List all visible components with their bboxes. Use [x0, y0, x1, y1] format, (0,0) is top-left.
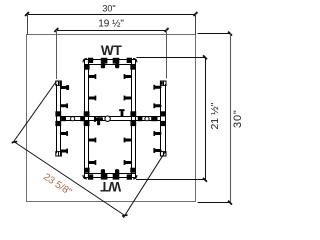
weld cap below middle bar at right element	[160, 121, 166, 126]
corner top-right	[133, 59, 137, 63]
tick 30in top right	[193, 11, 198, 16]
weld cap left bar bottom end	[85, 168, 90, 173]
stud on left WT y87	[60, 86, 67, 89]
weld cap top bar right end	[127, 58, 132, 63]
tick 21.5in bottom	[202, 177, 207, 182]
stud on left WT y105	[60, 104, 67, 107]
stud on left flange y98	[88, 97, 95, 100]
extension line diagonal lower (from right WT bottom corner)	[123, 152, 165, 218]
right WT top end tab	[160, 81, 166, 85]
weld cap top bar left end	[88, 58, 93, 63]
corner bottom-left	[83, 175, 87, 179]
tick 23-5/8 lower-right	[122, 214, 128, 217]
WT frame middle flanges	[61, 116, 161, 118]
stud head circle center	[105, 116, 110, 121]
stud head circle right span	[145, 117, 149, 121]
left WT top end tab	[56, 81, 62, 85]
stud on left flange y140	[88, 139, 95, 142]
weld cap right bar bottom end	[130, 168, 135, 173]
weld cap above middle bar at right element	[160, 111, 166, 116]
right WT web	[160, 81, 162, 156]
stud block on bottom flange left	[101, 174, 108, 180]
svg-text:WT: WT	[100, 179, 122, 194]
stud on left flange y76	[88, 75, 95, 78]
WT frame top flange	[84, 59, 135, 61]
svg-text:23 5/8": 23 5/8"	[41, 172, 74, 199]
extension line left plate edge	[27, 14, 29, 35]
stud on left WT y133	[60, 132, 67, 135]
stud inside right flange y162	[125, 161, 132, 164]
stud on right WT y87	[154, 86, 161, 89]
weld cap below middle bar at left bar	[84, 121, 90, 126]
right WT bottom end tab	[160, 152, 166, 156]
extension line right plate edge	[195, 14, 197, 35]
extension line right WT flange	[166, 30, 168, 78]
stud block on top flange left	[101, 58, 108, 64]
weld cap below middle bar at left element	[55, 121, 61, 126]
svg-text:19 ½": 19 ½"	[98, 19, 124, 30]
tick 19.5in right	[164, 27, 169, 32]
stud on left flange y162	[88, 161, 95, 164]
extension line left WT flange	[56, 30, 58, 79]
corner bottom-right	[133, 175, 137, 179]
svg-text:WT: WT	[101, 43, 123, 58]
stud block on top flange right	[113, 58, 120, 64]
svg-text:30": 30"	[232, 109, 244, 128]
weld cap middle bar seg3	[138, 116, 143, 121]
leader top 21.5in	[137, 57, 206, 59]
tick 30in top left	[24, 11, 29, 16]
stud inside right flange y98	[125, 97, 132, 100]
stud standing on middle bar	[119, 109, 124, 111]
dimension line 19.5in	[56, 30, 166, 32]
stud block on bottom flange right	[113, 174, 120, 180]
weld cap middle bar seg2	[80, 116, 85, 121]
WT frame left flange	[84, 60, 86, 178]
weld cap bottom bar right end	[127, 174, 132, 179]
stud on right WT y133	[154, 132, 161, 135]
stud inside right flange y76	[125, 75, 132, 78]
stud inside right flange y140	[125, 139, 132, 142]
dimension line 30in right vertical	[230, 34, 232, 203]
dimension line 23-5/8 diagonal	[15, 142, 125, 216]
tick 23-5/8 upper-left	[12, 141, 18, 144]
svg-text:21 ½": 21 ½"	[209, 102, 221, 129]
tick 19.5in left	[54, 27, 59, 32]
WT frame bottom flange	[84, 173, 135, 175]
stud on right WT y150	[154, 149, 161, 152]
extension line diagonal upper (from left WT top corner)	[12, 82, 56, 144]
weld cap bottom bar left end	[88, 174, 93, 179]
weld cap above middle bar at left element	[55, 111, 61, 116]
weld cap above middle bar at left bar	[84, 111, 90, 116]
tick right 30in top	[227, 31, 232, 36]
weld cap above middle bar at right bar	[130, 111, 136, 116]
leader bottom 21.5in	[136, 179, 205, 181]
weld cap below middle bar at right bar	[130, 121, 136, 126]
stud on right WT y105	[154, 104, 161, 107]
leader bottom right 30in	[198, 202, 231, 204]
weld cap middle bar seg1	[61, 116, 66, 121]
stud lying in middle bar	[94, 116, 96, 121]
left WT top stud	[61, 86, 68, 89]
svg-text:30": 30"	[102, 4, 115, 14]
left WT bottom end tab	[56, 152, 62, 156]
weld cap left bar top end	[85, 65, 90, 70]
dimension line 30in top	[27, 14, 196, 16]
WT frame right flange	[131, 60, 133, 178]
corner top-left	[83, 59, 87, 63]
tick 21.5in top	[202, 55, 207, 60]
steel base plate outline 30x30	[27, 35, 196, 202]
weld cap middle bar seg4	[151, 116, 157, 121]
dimension line 21.5in vertical	[205, 57, 207, 180]
stud head circle left span	[71, 117, 75, 121]
left WT web	[56, 84, 58, 153]
weld cap right bar top end	[130, 65, 135, 70]
tick right 30in bottom	[227, 200, 232, 205]
leader top right 30in	[198, 33, 231, 35]
stud on left WT y151	[60, 150, 67, 153]
